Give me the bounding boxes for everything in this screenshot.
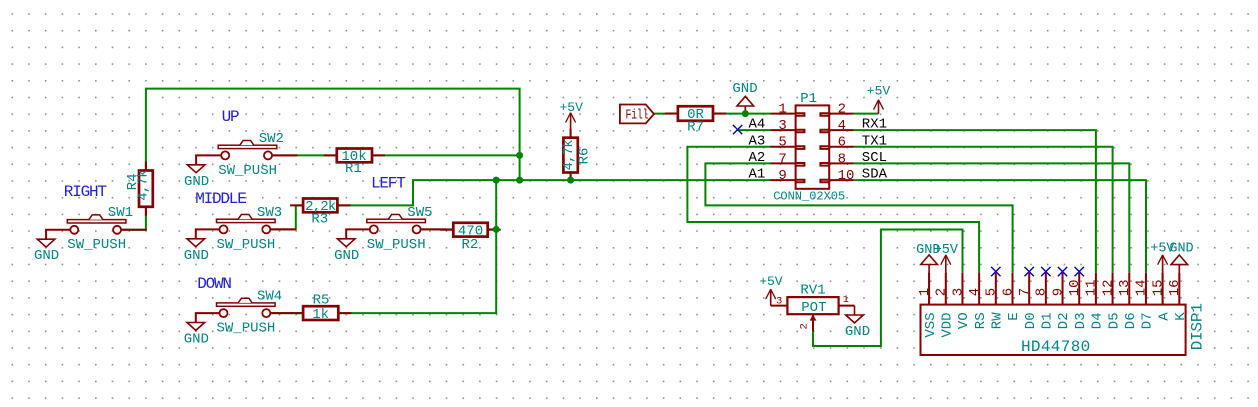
svg-text:R4: R4 (125, 173, 141, 190)
svg-text:R7: R7 (687, 120, 704, 136)
svg-text:D1: D1 (1040, 312, 1056, 329)
svg-text:R6: R6 (577, 148, 593, 165)
svg-text:D3: D3 (1073, 312, 1089, 329)
svg-text:7: 7 (1017, 288, 1033, 296)
svg-text:1k: 1k (312, 307, 329, 323)
svg-text:9: 9 (1050, 288, 1066, 296)
svg-text:A4: A4 (748, 117, 765, 133)
svg-text:SW5: SW5 (407, 205, 432, 221)
svg-text:A: A (1156, 312, 1172, 321)
svg-text:SDA: SDA (862, 167, 888, 183)
svg-text:A3: A3 (748, 133, 765, 149)
svg-text:RIGHT: RIGHT (64, 183, 107, 201)
svg-text:+5V: +5V (867, 83, 891, 98)
svg-text:GND: GND (732, 81, 757, 97)
svg-text:8: 8 (1034, 288, 1050, 296)
svg-text:+5V: +5V (559, 100, 583, 115)
svg-text:VSS: VSS (923, 312, 939, 337)
svg-text:D7: D7 (1140, 312, 1156, 329)
svg-text:4,7k: 4,7k (561, 140, 577, 171)
svg-text:1: 1 (917, 288, 933, 296)
svg-text:16: 16 (1167, 279, 1183, 296)
svg-text:10: 10 (1067, 279, 1083, 296)
svg-text:R2: R2 (461, 237, 478, 253)
svg-text:13: 13 (1117, 279, 1133, 296)
svg-text:UP: UP (222, 108, 239, 126)
svg-text:1: 1 (778, 102, 786, 118)
svg-text:R1: R1 (345, 161, 362, 177)
svg-text:12: 12 (1100, 279, 1116, 296)
svg-text:RW: RW (990, 312, 1006, 329)
svg-text:SW_PUSH: SW_PUSH (217, 321, 276, 337)
svg-text:CONN_02X05: CONN_02X05 (773, 190, 845, 204)
svg-text:SCL: SCL (862, 150, 887, 166)
svg-text:GND: GND (334, 248, 359, 264)
svg-text:E: E (1006, 312, 1022, 320)
svg-text:SW_PUSH: SW_PUSH (367, 237, 426, 253)
svg-text:SW_PUSH: SW_PUSH (218, 163, 277, 179)
svg-text:RS: RS (973, 312, 989, 329)
svg-text:1: 1 (843, 294, 849, 306)
svg-text:D0: D0 (1023, 312, 1039, 329)
svg-text:SW3: SW3 (257, 205, 282, 221)
svg-text:R3: R3 (311, 211, 328, 227)
svg-text:TX1: TX1 (862, 133, 887, 149)
svg-text:+5V: +5V (934, 243, 959, 258)
svg-text:5: 5 (778, 135, 786, 151)
svg-text:R5: R5 (313, 293, 330, 309)
svg-text:Fill: Fill (626, 107, 649, 123)
svg-text:4: 4 (838, 118, 846, 134)
svg-text:D5: D5 (1106, 312, 1122, 329)
svg-text:2: 2 (934, 288, 950, 296)
svg-text:SW4: SW4 (257, 289, 282, 305)
svg-text:6: 6 (838, 135, 846, 151)
svg-text:POT: POT (801, 300, 826, 316)
svg-text:3: 3 (776, 296, 782, 308)
svg-text:7: 7 (778, 151, 786, 167)
svg-text:15: 15 (1150, 279, 1166, 296)
svg-text:GND: GND (184, 332, 209, 348)
svg-text:11: 11 (1084, 279, 1100, 296)
svg-text:SW2: SW2 (259, 131, 284, 147)
svg-text:SW1: SW1 (108, 205, 133, 221)
svg-text:P1: P1 (800, 91, 817, 107)
svg-text:DOWN: DOWN (197, 275, 231, 293)
svg-text:3: 3 (778, 118, 786, 134)
svg-text:4: 4 (967, 288, 983, 296)
svg-text:LEFT: LEFT (371, 175, 405, 193)
svg-text:3: 3 (950, 288, 966, 296)
svg-text:MIDDLE: MIDDLE (195, 190, 246, 208)
svg-text:D2: D2 (1056, 312, 1072, 329)
svg-text:D4: D4 (1090, 312, 1106, 329)
svg-text:A2: A2 (748, 150, 765, 166)
svg-text:+5V: +5V (759, 274, 783, 289)
svg-text:GND: GND (34, 248, 59, 264)
svg-text:2: 2 (838, 102, 846, 118)
svg-text:K: K (1173, 312, 1189, 321)
svg-text:2: 2 (799, 323, 811, 329)
svg-text:10: 10 (838, 168, 855, 184)
svg-text:+5V: +5V (1150, 241, 1175, 256)
svg-text:RX1: RX1 (862, 117, 887, 133)
svg-text:5: 5 (984, 288, 1000, 296)
svg-text:6: 6 (1000, 288, 1016, 296)
svg-text:RV1: RV1 (800, 283, 825, 299)
svg-text:HD44780: HD44780 (1021, 338, 1091, 356)
svg-text:VDD: VDD (939, 312, 955, 337)
svg-text:GND: GND (184, 248, 209, 264)
svg-text:8: 8 (838, 151, 846, 167)
svg-text:D6: D6 (1123, 312, 1139, 329)
svg-text:SW_PUSH: SW_PUSH (67, 237, 126, 253)
svg-text:SW_PUSH: SW_PUSH (217, 237, 276, 253)
svg-text:14: 14 (1134, 279, 1150, 296)
svg-text:GND: GND (845, 324, 870, 340)
svg-text:VO: VO (956, 312, 972, 329)
svg-text:A1: A1 (748, 167, 765, 183)
svg-text:GND: GND (184, 174, 209, 190)
svg-text:9: 9 (778, 168, 786, 184)
svg-text:DISP1: DISP1 (1189, 303, 1207, 350)
